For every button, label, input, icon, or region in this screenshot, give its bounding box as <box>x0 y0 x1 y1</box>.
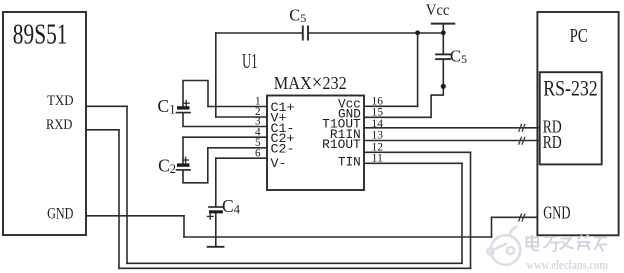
capacitor C1 plates <box>177 106 190 109</box>
capacitor C1 plus sign <box>183 101 213 220</box>
svg-text:13: 13 <box>372 130 384 142</box>
svg-text:C2-: C2- <box>271 143 295 157</box>
svg-text:GND: GND <box>47 206 73 223</box>
wire GND bottom run <box>184 236 492 238</box>
wire pin 6 V- stub <box>216 157 267 159</box>
wire GND into PC <box>492 216 538 218</box>
wire pin 4 C2+ stub <box>183 136 267 138</box>
svg-text:RS-232: RS-232 <box>543 76 598 101</box>
watermark text 电子发烧友 <box>527 235 608 252</box>
wire RXD from 89S51 <box>86 129 119 131</box>
PC box <box>537 12 618 235</box>
wire down to C2 top <box>182 137 184 163</box>
wire RXD vertical down <box>118 130 120 268</box>
wire top rail right of C5 <box>308 32 443 34</box>
capacitor C5 top plates <box>302 26 304 39</box>
wire top rail left of C5 <box>216 32 303 34</box>
svg-text:TIN: TIN <box>338 156 361 170</box>
junction node on C5b stem <box>441 84 446 89</box>
junction node on rail at pin16 riser <box>415 30 420 35</box>
svg-text:15: 15 <box>372 106 384 118</box>
cable break marks on T1OUT line <box>519 125 525 221</box>
wire C5b bottom stem jog to pin 15 <box>431 60 443 118</box>
wire pin 1 C1+ stub <box>208 106 267 108</box>
wire pin 16 rise to rail <box>417 33 419 106</box>
power symbol Vcc bar <box>432 23 454 25</box>
svg-text:6: 6 <box>255 147 261 159</box>
svg-text:Vcc: Vcc <box>426 2 450 19</box>
capacitor C2 plus sign <box>183 159 189 161</box>
RS-232 connector box <box>540 72 602 164</box>
wire pin 13 R1IN to RS-232 RD <box>364 140 540 142</box>
svg-text:V-: V- <box>271 157 287 171</box>
svg-text:RXD: RXD <box>46 116 72 133</box>
svg-text:14: 14 <box>372 118 384 130</box>
wire C1 bottom to pin 3 <box>183 113 267 127</box>
svg-text:U1: U1 <box>242 49 257 73</box>
wire TXD rise to pin 11 <box>461 163 463 263</box>
ground bar <box>208 246 224 248</box>
capacitor C4 plus sign <box>208 215 214 217</box>
wire TXD from 89S51 to vertical <box>86 105 127 107</box>
svg-text:www.elecfans.com: www.elecfans.com <box>527 257 609 272</box>
svg-text:PC: PC <box>570 25 588 47</box>
wire RXD rise to pin 12 <box>470 152 472 268</box>
wire into pin 12 R1OUT <box>364 151 471 153</box>
wire C5b top stem <box>442 33 444 54</box>
svg-text:89S51: 89S51 <box>13 19 68 50</box>
wire TXD vertical down <box>126 106 128 263</box>
svg-text:11: 11 <box>372 152 384 164</box>
svg-text:GND: GND <box>543 203 570 223</box>
junction node at Vcc stem <box>441 30 446 35</box>
wire pin 14 T1OUT to RS-232 RD <box>364 127 540 129</box>
wire RXD bottom run <box>119 267 471 269</box>
wire GND from 89S51 <box>86 215 184 217</box>
wire pin 16 Vcc stub <box>364 105 418 107</box>
wire pin 15 GND stub <box>364 116 431 118</box>
wire pin 5 C2- stub <box>208 147 267 149</box>
cable break marks on R1IN line <box>519 137 522 144</box>
wire C4 bottom stem to ground <box>215 214 217 247</box>
wire C2 bottom loop to pin 5 <box>183 148 208 183</box>
watermark logo circle <box>487 227 520 265</box>
wire V+ rise to top rail <box>215 33 217 117</box>
capacitor C2 plates <box>177 163 190 166</box>
wire GND drop <box>183 216 185 237</box>
MCU box 89S51 <box>3 12 86 235</box>
wire pin 1 loop to C1 top <box>183 81 208 107</box>
wire GND rise <box>491 217 493 237</box>
svg-text:MAX×232: MAX×232 <box>274 70 347 94</box>
cable break marks on GND line <box>519 214 522 221</box>
svg-text:TXD: TXD <box>47 92 73 109</box>
wire down to C4 <box>215 158 217 206</box>
wire into pin 11 TIN <box>364 162 462 164</box>
op-amp U1 MAX232 IC body <box>267 96 364 191</box>
capacitor C5 right plates <box>436 53 450 55</box>
capacitor C4 plates <box>209 206 223 208</box>
wire TXD bottom run <box>127 262 462 264</box>
svg-text:R1OUT: R1OUT <box>322 138 361 152</box>
wire Vcc stem <box>442 24 444 33</box>
wire pin 2 V+ stub <box>216 116 267 118</box>
svg-text:RD: RD <box>543 132 562 152</box>
